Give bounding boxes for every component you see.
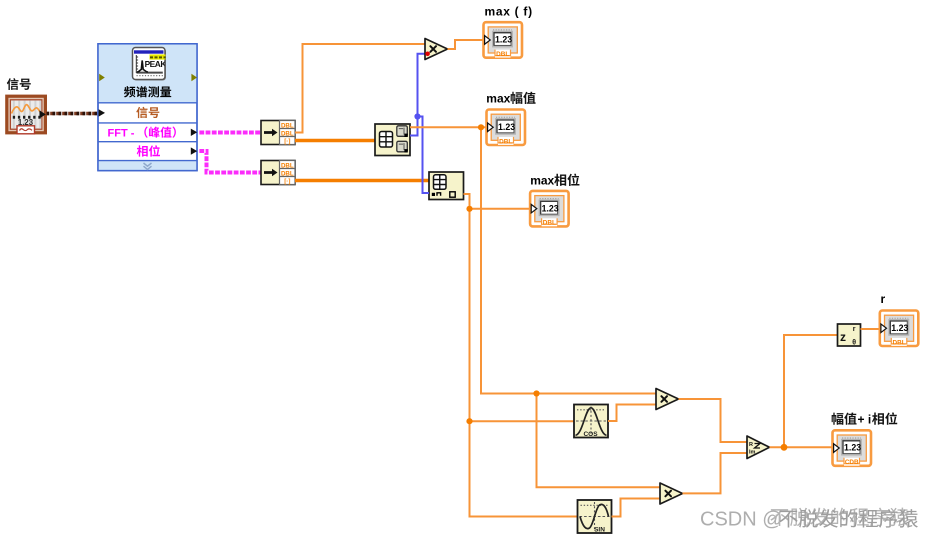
wire: complex out -> 幅值+i相位 / polar [770, 335, 839, 447]
function Array Max & Min [375, 124, 410, 156]
svg-text:PEAK: PEAK [145, 59, 167, 69]
svg-text:SIN: SIN [594, 527, 605, 534]
wire: r out -> r indicator [861, 328, 881, 330]
svg-text:max ( f): max ( f) [485, 4, 533, 18]
multiply node 1 (amp × cos) [656, 389, 679, 410]
express VI edge arrows (icon row, olive) [99, 74, 197, 81]
svg-text:1.23: 1.23 [498, 122, 515, 132]
watermark CSDN @不脱发的程序猿 [700, 508, 918, 531]
wire: max index (I32) Array Max&Min -> multiply / Index Array [410, 54, 429, 193]
svg-text:max: max [486, 92, 510, 106]
svg-text:DBL: DBL [892, 339, 905, 346]
wire: phase value -> max相位 / cos / sin [464, 194, 579, 517]
wire: multiply out -> max(f) indicator [448, 40, 485, 49]
control 信号 (waveform/dynamic data source) [7, 96, 46, 134]
svg-text:CSDN @: CSDN @ [700, 509, 783, 531]
junction: amplitude wire split to multiplies [533, 390, 539, 396]
svg-text:r: r [853, 326, 856, 333]
coercion dot (red) [425, 52, 430, 57]
wire: cos out -> multiply1 [608, 405, 656, 422]
indicator 幅值+ i相位 (complex) [833, 430, 872, 466]
svg-text:DBL: DBL [281, 130, 294, 137]
wire: FFT-（峰值）dynamic data -> convert node 1 [198, 131, 263, 135]
svg-text:1.23: 1.23 [542, 203, 559, 213]
junction: blue wire branch [414, 113, 420, 119]
express VI output terminal arrow (FFT row) [191, 129, 197, 136]
express VI row label 相位 (output) [137, 145, 160, 156]
function Cosine [574, 405, 608, 439]
junction: max value at max幅值 input [478, 124, 484, 130]
label r [881, 292, 886, 306]
express VI output terminal arrow (相位 row) [191, 147, 197, 154]
express VI 频谱测量 (Spectral Measurements) [98, 44, 197, 171]
svg-text:DBL: DBL [496, 51, 509, 58]
svg-text:DBL: DBL [499, 138, 512, 145]
indicator r [880, 311, 919, 347]
svg-text:+ i: + i [858, 412, 872, 426]
wire: convert1 DBL (df) -> multiply [295, 44, 425, 133]
svg-text:DBL: DBL [543, 220, 556, 227]
svg-text:DBL: DBL [281, 170, 294, 177]
junction: phase wire at max相位 branch [466, 206, 472, 212]
convert from dynamic data node 2 (phase) [261, 161, 295, 186]
svg-text:[·]: [·] [284, 178, 290, 185]
svg-text:max: max [530, 174, 554, 188]
indicator max ( f) [484, 22, 523, 58]
express VI input terminal arrow (信号 row) [99, 109, 105, 116]
multiply node 2 (amp × sin) [660, 483, 683, 504]
svg-text:R: R [749, 442, 753, 448]
wire: convert1 array out -> Array Max&Min [295, 139, 375, 142]
svg-text:1.23: 1.23 [495, 35, 512, 45]
label max ( f) [485, 4, 533, 18]
wire: convert2 array out -> Index Array [295, 179, 429, 182]
svg-text:1.23: 1.23 [844, 443, 861, 453]
wire: multiply2 out -> Re/Im to Complex [683, 453, 748, 493]
multiply node (index × df) [425, 39, 448, 60]
wire: dynamic data 信号 -> 频谱测量 [47, 112, 99, 115]
express VI icon (PEAK spectral) [133, 48, 167, 81]
wire: 相位 dynamic data -> convert node 2 [198, 151, 263, 173]
svg-text:CDB: CDB [845, 459, 859, 466]
wire: multiply1 out -> Re/Im to Complex [679, 399, 748, 442]
function Sine [578, 500, 612, 534]
svg-text:z: z [840, 330, 846, 344]
indicator max幅值 [487, 110, 526, 146]
convert from dynamic data node 1 (FFT magnitude) [261, 121, 295, 146]
svg-text:Im: Im [749, 450, 756, 456]
svg-text:θ: θ [852, 339, 856, 346]
junction: phase wire at cos branch [466, 418, 472, 424]
indicator max相位 [530, 191, 569, 227]
junction: complex wire branch to polar [781, 444, 788, 451]
svg-text:COS: COS [583, 431, 598, 438]
svg-text:DBL: DBL [281, 122, 294, 129]
express VI row label 信号 (input) [136, 107, 159, 118]
function Index Array [429, 172, 464, 200]
express VI title 频谱测量 [124, 86, 171, 97]
svg-text:FFT -: FFT - [108, 128, 135, 140]
svg-text:r: r [881, 292, 886, 306]
wire: sin out -> multiply2 [612, 499, 660, 517]
function Complex to Polar (z -> r,θ) [838, 324, 861, 346]
label 幅值+ i相位 [832, 412, 898, 426]
express VI row label FFT -（峰值）(output) [108, 126, 176, 139]
svg-text:DBL: DBL [281, 162, 294, 169]
svg-text:1.23: 1.23 [891, 323, 908, 333]
svg-text:[·]: [·] [284, 138, 290, 145]
wire: max value -> max幅值 / multiplies [410, 127, 660, 487]
label max幅值 [486, 92, 535, 106]
label 信号 [7, 78, 31, 90]
label max相位 [530, 174, 579, 188]
function Re/Im to Complex [747, 436, 770, 459]
